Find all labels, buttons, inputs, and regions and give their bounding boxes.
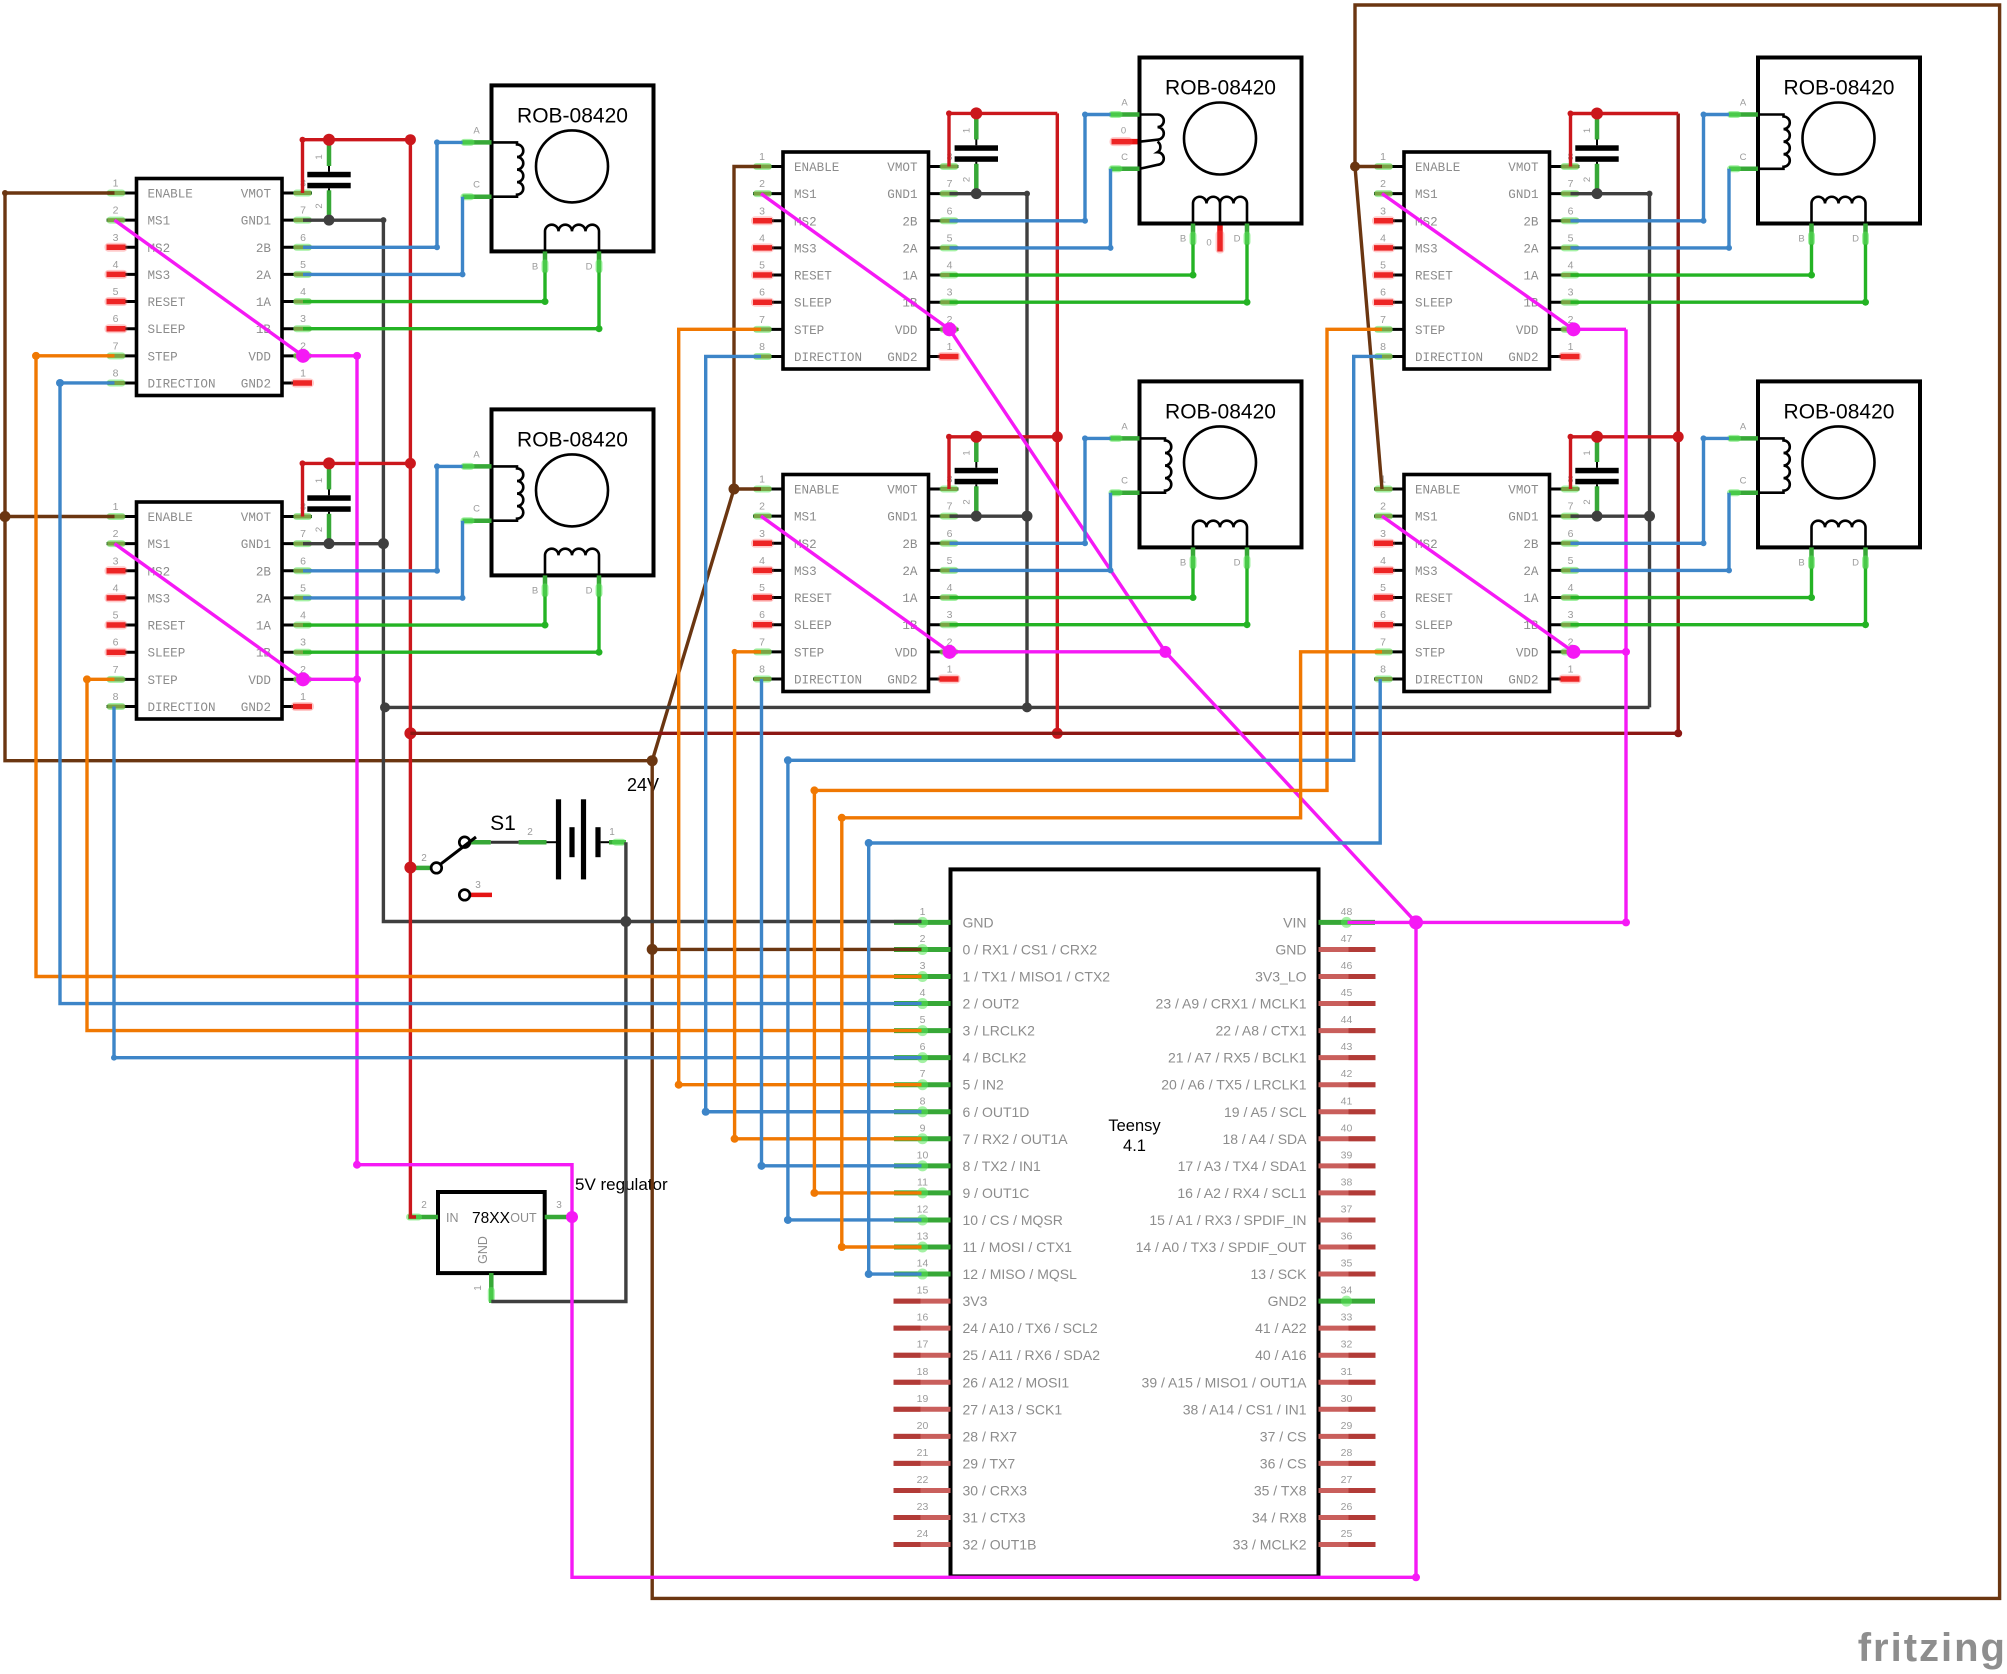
svg-text:8: 8 bbox=[1380, 663, 1386, 675]
svg-text:1: 1 bbox=[1582, 450, 1593, 455]
svg-text:6: 6 bbox=[1380, 287, 1386, 299]
wire green U6 1B to motor D bbox=[1571, 568, 1870, 628]
svg-text:3: 3 bbox=[1380, 528, 1386, 540]
svg-text:18: 18 bbox=[917, 1366, 929, 1378]
svg-text:5: 5 bbox=[920, 1014, 926, 1026]
svg-text:MS3: MS3 bbox=[148, 269, 171, 283]
wire magenta regulator OUT bbox=[567, 1215, 572, 1218]
wire green U3 1B to motor D bbox=[950, 245, 1251, 306]
svg-text:48: 48 bbox=[1341, 906, 1353, 918]
svg-text:5: 5 bbox=[947, 555, 953, 567]
svg-text:7: 7 bbox=[113, 664, 119, 676]
wire green U1 1B to motor D bbox=[303, 272, 603, 332]
wire brown vertical to Teensy pin2 and bottom bus bbox=[647, 5, 2000, 1598]
svg-text:34 / RX8: 34 / RX8 bbox=[1252, 1510, 1307, 1526]
svg-text:3: 3 bbox=[556, 1200, 562, 1211]
wire gray M2.GND1 join bbox=[950, 511, 1033, 522]
svg-text:3: 3 bbox=[1568, 609, 1574, 621]
svg-text:fritzing: fritzing bbox=[1858, 1626, 2007, 1670]
svg-text:34: 34 bbox=[1341, 1285, 1353, 1297]
svg-text:6 / OUT1D: 6 / OUT1D bbox=[963, 1104, 1030, 1120]
svg-text:5: 5 bbox=[759, 582, 765, 594]
svg-text:GND1: GND1 bbox=[887, 511, 917, 525]
capacitor C1 bbox=[307, 140, 350, 217]
svg-text:15: 15 bbox=[917, 1285, 929, 1297]
svg-text:2 / OUT2: 2 / OUT2 bbox=[963, 996, 1020, 1012]
svg-text:2: 2 bbox=[527, 827, 533, 838]
wire magenta L1.VDD bbox=[296, 349, 361, 363]
svg-text:GND2: GND2 bbox=[1268, 1293, 1307, 1309]
wire green U4 1B to motor D bbox=[950, 568, 1251, 628]
wire orange R2.STEP to Teensy 11/MOSI bbox=[838, 652, 1382, 1251]
svg-text:21 / A7 / RX5 / BCLK1: 21 / A7 / RX5 / BCLK1 bbox=[1168, 1050, 1307, 1066]
svg-text:4: 4 bbox=[300, 286, 306, 298]
svg-text:A: A bbox=[1121, 421, 1128, 432]
wire gray L1.GND1 to gray bus bbox=[303, 215, 922, 922]
svg-text:VMOT: VMOT bbox=[241, 511, 272, 525]
svg-text:3: 3 bbox=[947, 287, 953, 299]
svg-text:STEP: STEP bbox=[794, 324, 824, 338]
svg-text:A: A bbox=[1740, 98, 1747, 109]
svg-text:GND2: GND2 bbox=[241, 701, 271, 715]
svg-text:4: 4 bbox=[759, 555, 765, 567]
svg-text:MS3: MS3 bbox=[1415, 242, 1438, 256]
svg-text:OUT: OUT bbox=[510, 1211, 537, 1225]
svg-text:38: 38 bbox=[1341, 1176, 1353, 1188]
wire blue U2 2B to motor A bbox=[303, 463, 463, 573]
svg-text:2: 2 bbox=[1582, 499, 1593, 504]
svg-text:1: 1 bbox=[759, 151, 765, 163]
svg-text:6: 6 bbox=[300, 232, 306, 244]
wire magenta VIN junction to Teensy VIN bbox=[1348, 915, 1424, 929]
svg-text:35: 35 bbox=[1341, 1258, 1353, 1270]
svg-text:2B: 2B bbox=[256, 242, 272, 256]
wire black switch common to battery pin 2 bbox=[491, 841, 519, 844]
svg-text:C: C bbox=[473, 504, 480, 515]
svg-text:2: 2 bbox=[314, 203, 325, 208]
svg-text:19: 19 bbox=[917, 1393, 929, 1405]
svg-text:7: 7 bbox=[1568, 178, 1574, 190]
svg-text:16 / A2 / RX4 / SCL1: 16 / A2 / RX4 / SCL1 bbox=[1177, 1185, 1306, 1201]
wire red R2.VMOT to cap C6 bbox=[1568, 431, 1684, 489]
svg-text:2: 2 bbox=[920, 933, 926, 945]
svg-text:10: 10 bbox=[917, 1149, 929, 1161]
stepper motor M5 (ROB-08420) bbox=[1727, 58, 1920, 246]
svg-text:5: 5 bbox=[1568, 232, 1574, 244]
svg-text:3V3: 3V3 bbox=[963, 1293, 988, 1309]
svg-text:42: 42 bbox=[1341, 1068, 1353, 1080]
svg-text:MS3: MS3 bbox=[148, 592, 171, 606]
svg-text:ROB-08420: ROB-08420 bbox=[517, 104, 628, 127]
svg-text:ENABLE: ENABLE bbox=[794, 161, 839, 175]
svg-text:22: 22 bbox=[917, 1474, 929, 1486]
svg-text:6: 6 bbox=[759, 287, 765, 299]
svg-text:B: B bbox=[1180, 234, 1186, 245]
svg-text:VIN: VIN bbox=[1283, 914, 1306, 930]
svg-text:B: B bbox=[1180, 557, 1186, 568]
svg-text:1: 1 bbox=[473, 1285, 484, 1291]
svg-text:1: 1 bbox=[1380, 151, 1386, 163]
svg-text:1: 1 bbox=[113, 178, 119, 190]
svg-text:1: 1 bbox=[920, 906, 926, 918]
wire green U5 1B to motor D bbox=[1571, 245, 1870, 306]
svg-text:5: 5 bbox=[759, 260, 765, 272]
svg-text:6: 6 bbox=[1568, 205, 1574, 217]
wire orange L2.STEP to Teensy 3/LRCLK2 bbox=[83, 675, 922, 1030]
wire blue L1.DIRECTION to Teensy 2/OUT2 bbox=[56, 379, 922, 1004]
wire blue U4 2A to motor C bbox=[950, 493, 1114, 574]
svg-text:26 / A12 / MOSI1: 26 / A12 / MOSI1 bbox=[963, 1374, 1070, 1390]
svg-text:23 / A9 / CRX1 / MCLK1: 23 / A9 / CRX1 / MCLK1 bbox=[1156, 996, 1307, 1012]
wire green U5 1A to motor B bbox=[1571, 245, 1816, 279]
svg-text:B: B bbox=[532, 585, 538, 596]
wire blue M1.DIRECTION to Teensy 6/OUT1D bbox=[702, 356, 922, 1115]
wire brown diagonal battery bus to M-column bbox=[652, 489, 734, 761]
svg-text:3: 3 bbox=[300, 313, 306, 325]
svg-text:VDD: VDD bbox=[1516, 324, 1539, 338]
Teensy 4.1 microcontroller U7 bbox=[894, 869, 1376, 1576]
svg-text:ENABLE: ENABLE bbox=[1415, 484, 1460, 498]
svg-text:19 / A5 / SCL: 19 / A5 / SCL bbox=[1224, 1104, 1307, 1120]
svg-text:5: 5 bbox=[300, 259, 306, 271]
wire brown branch Teensy pin 2 (0/RX1) bbox=[652, 948, 921, 951]
wire blue R2.DIRECTION to Teensy 12/MISO bbox=[865, 679, 1380, 1278]
svg-text:5: 5 bbox=[300, 582, 306, 594]
svg-text:7: 7 bbox=[1568, 501, 1574, 513]
stepper driver U4 bbox=[751, 474, 961, 692]
svg-text:2A: 2A bbox=[902, 565, 918, 579]
svg-text:3 / LRCLK2: 3 / LRCLK2 bbox=[963, 1023, 1036, 1039]
svg-text:STEP: STEP bbox=[1415, 324, 1445, 338]
svg-text:6: 6 bbox=[947, 205, 953, 217]
svg-text:1A: 1A bbox=[902, 270, 918, 284]
svg-text:RESET: RESET bbox=[1415, 270, 1453, 284]
svg-text:ENABLE: ENABLE bbox=[148, 511, 193, 525]
svg-text:7: 7 bbox=[947, 501, 953, 513]
svg-text:0: 0 bbox=[1206, 238, 1211, 249]
svg-text:41: 41 bbox=[1341, 1095, 1353, 1107]
svg-text:35 / TX8: 35 / TX8 bbox=[1254, 1482, 1307, 1498]
svg-text:23: 23 bbox=[917, 1501, 929, 1513]
svg-text:20: 20 bbox=[917, 1420, 929, 1432]
svg-text:14: 14 bbox=[917, 1258, 929, 1270]
svg-text:RESET: RESET bbox=[148, 296, 186, 310]
svg-text:DIRECTION: DIRECTION bbox=[1415, 673, 1483, 687]
svg-text:29: 29 bbox=[1341, 1420, 1353, 1432]
svg-text:0: 0 bbox=[1121, 126, 1126, 137]
svg-text:GND1: GND1 bbox=[241, 538, 271, 552]
svg-text:2: 2 bbox=[421, 853, 427, 864]
wire gray horizontal GND bus bbox=[380, 702, 1650, 712]
svg-text:A: A bbox=[473, 449, 480, 460]
svg-text:16: 16 bbox=[917, 1312, 929, 1324]
switch S1 (SPDT) bbox=[416, 812, 516, 900]
svg-text:33 / MCLK2: 33 / MCLK2 bbox=[1233, 1537, 1307, 1553]
svg-text:DIRECTION: DIRECTION bbox=[148, 701, 216, 715]
svg-text:8: 8 bbox=[920, 1095, 926, 1107]
svg-text:28: 28 bbox=[1341, 1447, 1353, 1459]
svg-text:33: 33 bbox=[1341, 1312, 1353, 1324]
wire magenta MS1 jumper U1 bbox=[115, 220, 304, 356]
svg-text:27 / A13 / SCK1: 27 / A13 / SCK1 bbox=[963, 1401, 1063, 1417]
svg-text:GND2: GND2 bbox=[1508, 673, 1538, 687]
wire blue R1.DIRECTION to Teensy 10/CS bbox=[784, 356, 1382, 1223]
wire red switch S1 feed bbox=[410, 866, 416, 870]
wire brown junction to L2.ENABLE bbox=[0, 511, 115, 522]
svg-text:7 / RX2 / OUT1A: 7 / RX2 / OUT1A bbox=[963, 1131, 1069, 1147]
svg-text:46: 46 bbox=[1341, 960, 1353, 972]
svg-text:1: 1 bbox=[113, 501, 119, 513]
svg-text:4: 4 bbox=[1568, 260, 1574, 272]
svg-text:1A: 1A bbox=[1523, 270, 1539, 284]
svg-text:C: C bbox=[1740, 476, 1747, 487]
wire red L1.VMOT to cap C1 bbox=[300, 134, 416, 193]
capacitor C2 bbox=[307, 464, 350, 541]
svg-text:C: C bbox=[1121, 476, 1128, 487]
svg-text:36 / CS: 36 / CS bbox=[1260, 1455, 1307, 1471]
stepper motor M1 (ROB-08420) bbox=[461, 85, 654, 273]
wire magenta MS1 jumper U5 bbox=[1382, 194, 1574, 330]
svg-text:13 / SCK: 13 / SCK bbox=[1250, 1266, 1307, 1282]
svg-text:ROB-08420: ROB-08420 bbox=[517, 428, 628, 451]
svg-text:STEP: STEP bbox=[148, 350, 178, 364]
wire red L2.VMOT to cap C2 bbox=[300, 457, 416, 516]
wire magenta MS1 jumper U4 bbox=[761, 516, 950, 652]
capacitor C3 bbox=[955, 114, 998, 191]
svg-text:DIRECTION: DIRECTION bbox=[148, 377, 216, 391]
svg-text:12: 12 bbox=[917, 1203, 929, 1215]
svg-text:DIRECTION: DIRECTION bbox=[794, 351, 862, 365]
wire red R1.VMOT to cap C5 bbox=[1568, 108, 1679, 167]
svg-text:1A: 1A bbox=[1523, 592, 1539, 606]
wire brown diagonal R1 to R2.ENABLE bbox=[1355, 167, 1382, 490]
svg-text:GND: GND bbox=[963, 914, 994, 930]
svg-text:A: A bbox=[473, 125, 480, 136]
svg-text:C: C bbox=[473, 180, 480, 191]
svg-text:D: D bbox=[586, 585, 593, 596]
svg-text:39 / A15 / MISO1 / OUT1A: 39 / A15 / MISO1 / OUT1A bbox=[1142, 1374, 1308, 1390]
svg-text:S1: S1 bbox=[490, 812, 516, 835]
svg-text:44: 44 bbox=[1341, 1014, 1353, 1026]
svg-text:B: B bbox=[1798, 234, 1804, 245]
svg-text:2: 2 bbox=[961, 177, 972, 182]
svg-text:7: 7 bbox=[759, 314, 765, 326]
wire magenta R2.VDD bbox=[1567, 645, 1627, 659]
wire blue U1 2B to motor A bbox=[303, 139, 463, 250]
wire gray battery minus to GND bus and regulator GND bbox=[491, 842, 631, 1301]
svg-text:1A: 1A bbox=[256, 620, 272, 634]
svg-text:1A: 1A bbox=[902, 592, 918, 606]
svg-text:3: 3 bbox=[947, 609, 953, 621]
wire green U1 1A to motor B bbox=[303, 272, 549, 305]
svg-text:VMOT: VMOT bbox=[887, 161, 918, 175]
stepper driver U3 bbox=[751, 151, 961, 369]
wire green Teensy GND2 stub bbox=[1319, 1300, 1376, 1302]
svg-text:SLEEP: SLEEP bbox=[148, 323, 186, 337]
svg-text:VDD: VDD bbox=[248, 674, 271, 688]
svg-text:ENABLE: ENABLE bbox=[1415, 161, 1460, 175]
svg-text:VDD: VDD bbox=[895, 324, 918, 338]
wire magenta M1.VDD dot bbox=[943, 322, 957, 336]
svg-text:36: 36 bbox=[1341, 1231, 1353, 1243]
svg-text:3: 3 bbox=[113, 232, 119, 244]
battery 24V BT1 bbox=[519, 799, 626, 879]
svg-text:2A: 2A bbox=[256, 592, 272, 606]
stepper motor M2 (ROB-08420) bbox=[461, 409, 654, 597]
wire blue L2.DIRECTION to Teensy 4/BCLK2 bbox=[111, 706, 922, 1060]
svg-text:7: 7 bbox=[1380, 314, 1386, 326]
svg-text:RESET: RESET bbox=[794, 270, 832, 284]
wire red M1.VMOT to cap C3 bbox=[946, 107, 1057, 166]
svg-text:ROB-08420: ROB-08420 bbox=[1165, 77, 1276, 100]
svg-text:MS1: MS1 bbox=[148, 215, 171, 229]
stepper motor M4 (ROB-08420) bbox=[1109, 381, 1302, 569]
svg-text:1: 1 bbox=[1582, 128, 1593, 133]
label 24V bbox=[627, 775, 659, 795]
wire magenta R1.VDD bbox=[1567, 322, 1627, 336]
svg-text:7: 7 bbox=[300, 528, 306, 540]
svg-text:21: 21 bbox=[917, 1447, 929, 1459]
svg-text:MS3: MS3 bbox=[794, 242, 817, 256]
svg-text:24 / A10 / TX6 / SCL2: 24 / A10 / TX6 / SCL2 bbox=[963, 1320, 1098, 1336]
svg-text:GND2: GND2 bbox=[1508, 351, 1538, 365]
stepper driver U1 bbox=[105, 178, 315, 396]
svg-text:1 / TX1 / MISO1 / CTX2: 1 / TX1 / MISO1 / CTX2 bbox=[963, 969, 1111, 985]
svg-text:13: 13 bbox=[917, 1231, 929, 1243]
svg-text:4: 4 bbox=[947, 582, 953, 594]
wire gray L2.GND1 join bbox=[303, 538, 389, 549]
wire magenta right rail to R drivers bbox=[1416, 329, 1630, 926]
svg-text:4: 4 bbox=[1380, 232, 1386, 244]
wire gray M1.GND1 bbox=[950, 188, 1031, 707]
svg-text:3: 3 bbox=[1568, 287, 1574, 299]
svg-text:ROB-08420: ROB-08420 bbox=[1784, 77, 1895, 100]
wire magenta M2.VDD bbox=[943, 645, 1166, 659]
svg-text:6: 6 bbox=[1568, 528, 1574, 540]
svg-text:1: 1 bbox=[961, 450, 972, 455]
wire blue U6 2A to motor C bbox=[1571, 493, 1733, 574]
svg-text:4: 4 bbox=[1380, 555, 1386, 567]
svg-text:25 / A11 / RX6 / SDA2: 25 / A11 / RX6 / SDA2 bbox=[963, 1347, 1101, 1363]
svg-text:B: B bbox=[1798, 557, 1804, 568]
svg-text:2B: 2B bbox=[902, 538, 918, 552]
svg-text:RESET: RESET bbox=[148, 620, 186, 634]
wire blue U3 2B to motor A bbox=[950, 112, 1111, 224]
svg-text:2B: 2B bbox=[1523, 538, 1539, 552]
svg-text:MS1: MS1 bbox=[1415, 511, 1438, 525]
label 5V regulator bbox=[575, 1175, 668, 1194]
wire brown L1.ENABLE to left bus bbox=[2, 190, 658, 766]
wire blue U4 2B to motor A bbox=[950, 435, 1111, 546]
svg-text:RESET: RESET bbox=[794, 592, 832, 606]
svg-text:3: 3 bbox=[113, 555, 119, 567]
svg-text:MS1: MS1 bbox=[794, 188, 817, 202]
svg-text:22 / A8 / CTX1: 22 / A8 / CTX1 bbox=[1215, 1023, 1306, 1039]
svg-text:2: 2 bbox=[759, 501, 765, 513]
svg-text:STEP: STEP bbox=[1415, 646, 1445, 660]
svg-text:GND: GND bbox=[1275, 941, 1306, 957]
svg-text:5: 5 bbox=[947, 232, 953, 244]
svg-text:38 / A14 / CS1 / IN1: 38 / A14 / CS1 / IN1 bbox=[1183, 1401, 1307, 1417]
wire red 24V vertical rail left bbox=[404, 140, 416, 1217]
svg-text:DIRECTION: DIRECTION bbox=[1415, 351, 1483, 365]
svg-text:GND1: GND1 bbox=[1508, 511, 1538, 525]
svg-text:27: 27 bbox=[1341, 1474, 1353, 1486]
svg-text:7: 7 bbox=[1380, 636, 1386, 648]
svg-text:2: 2 bbox=[1582, 177, 1593, 182]
wire blue U3 2A to motor C bbox=[950, 169, 1114, 251]
svg-text:8: 8 bbox=[759, 341, 765, 353]
wire orange L1.STEP to Teensy 1/TX1 bbox=[32, 352, 922, 977]
svg-text:SLEEP: SLEEP bbox=[1415, 297, 1453, 311]
capacitor C4 bbox=[955, 436, 998, 513]
svg-text:40: 40 bbox=[1341, 1122, 1353, 1134]
svg-text:4 / BCLK2: 4 / BCLK2 bbox=[963, 1050, 1027, 1066]
svg-text:7: 7 bbox=[947, 178, 953, 190]
svg-text:D: D bbox=[1234, 557, 1241, 568]
svg-text:4: 4 bbox=[113, 582, 119, 594]
wire brown M2.ENABLE bbox=[729, 484, 762, 495]
svg-text:GND1: GND1 bbox=[887, 188, 917, 202]
svg-text:45: 45 bbox=[1341, 987, 1353, 999]
svg-text:ROB-08420: ROB-08420 bbox=[1165, 400, 1276, 423]
svg-text:2: 2 bbox=[314, 527, 325, 532]
svg-text:5V regulator: 5V regulator bbox=[575, 1175, 668, 1194]
svg-text:1: 1 bbox=[961, 128, 972, 133]
svg-text:RESET: RESET bbox=[1415, 592, 1453, 606]
svg-text:5: 5 bbox=[113, 610, 119, 622]
svg-text:2: 2 bbox=[421, 1200, 427, 1211]
svg-text:C: C bbox=[1740, 152, 1747, 163]
svg-text:4: 4 bbox=[1568, 582, 1574, 594]
svg-text:2B: 2B bbox=[256, 565, 272, 579]
stepper driver U2 bbox=[105, 501, 315, 719]
svg-text:3: 3 bbox=[759, 528, 765, 540]
wire blue U2 2A to motor C bbox=[303, 521, 466, 601]
svg-text:1: 1 bbox=[314, 478, 325, 483]
svg-text:3: 3 bbox=[1380, 205, 1386, 217]
svg-text:C: C bbox=[1121, 152, 1128, 163]
svg-text:25: 25 bbox=[1341, 1528, 1353, 1540]
svg-text:30 / CRX3: 30 / CRX3 bbox=[963, 1482, 1028, 1498]
svg-text:8: 8 bbox=[1380, 341, 1386, 353]
svg-text:MS1: MS1 bbox=[1415, 188, 1438, 202]
svg-text:2: 2 bbox=[113, 205, 119, 217]
svg-text:A: A bbox=[1740, 421, 1747, 432]
svg-text:10 / CS / MQSR: 10 / CS / MQSR bbox=[963, 1212, 1063, 1228]
svg-text:1: 1 bbox=[947, 341, 953, 353]
svg-text:2A: 2A bbox=[1523, 565, 1539, 579]
svg-text:8: 8 bbox=[113, 367, 119, 379]
svg-text:1: 1 bbox=[300, 691, 306, 703]
svg-text:VDD: VDD bbox=[1516, 646, 1539, 660]
svg-text:1: 1 bbox=[314, 154, 325, 159]
svg-text:MS3: MS3 bbox=[1415, 565, 1438, 579]
svg-text:78XX: 78XX bbox=[472, 1210, 511, 1227]
svg-text:17 / A3 / TX4 / SDA1: 17 / A3 / TX4 / SDA1 bbox=[1178, 1158, 1307, 1174]
svg-text:6: 6 bbox=[300, 555, 306, 567]
svg-text:9: 9 bbox=[920, 1122, 926, 1134]
wire orange M2.STEP to Teensy 7/RX2 bbox=[731, 649, 922, 1143]
svg-text:2: 2 bbox=[1380, 178, 1386, 190]
svg-text:11 / MOSI / CTX1: 11 / MOSI / CTX1 bbox=[963, 1239, 1073, 1255]
svg-text:2: 2 bbox=[113, 528, 119, 540]
capacitor C5 bbox=[1575, 114, 1618, 191]
svg-text:4: 4 bbox=[300, 610, 306, 622]
svg-text:28 / RX7: 28 / RX7 bbox=[963, 1428, 1018, 1444]
svg-text:GND2: GND2 bbox=[887, 351, 917, 365]
svg-text:GND: GND bbox=[476, 1236, 490, 1264]
